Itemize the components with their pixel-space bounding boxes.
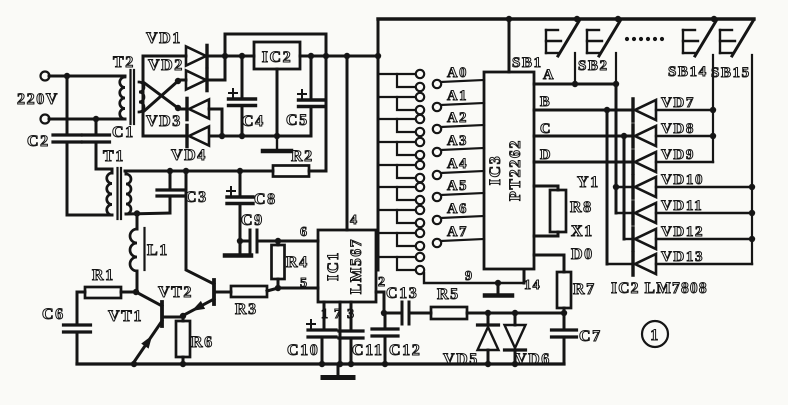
svg-text:R6: R6 xyxy=(191,334,214,351)
svg-text:X1: X1 xyxy=(571,223,594,240)
wire mains bottom xyxy=(49,118,125,121)
diode VD7 xyxy=(631,99,634,121)
svg-text:R2: R2 xyxy=(291,148,314,165)
svg-text:R5: R5 xyxy=(437,286,460,303)
svg-text:LM567: LM567 xyxy=(348,238,365,294)
svg-text:IC2 LM7808: IC2 LM7808 xyxy=(611,280,708,297)
svg-text:C5: C5 xyxy=(286,112,309,129)
svg-text:D: D xyxy=(540,147,552,163)
capacitor C10 xyxy=(308,328,336,331)
diode VD13 xyxy=(631,253,634,275)
svg-text:C2: C2 xyxy=(27,133,50,150)
wire pin14 xyxy=(523,270,526,283)
svg-text:C6: C6 xyxy=(42,306,65,323)
left bus wire xyxy=(377,19,380,270)
ground symbol IC2 xyxy=(276,136,278,150)
svg-text:A6: A6 xyxy=(447,201,468,217)
wire IC1 pin2 xyxy=(376,292,384,313)
svg-text:6: 6 xyxy=(300,225,309,240)
svg-text:T2: T2 xyxy=(113,54,135,71)
svg-text:VT2: VT2 xyxy=(158,284,193,301)
bridge crossover wires xyxy=(143,82,178,108)
svg-text:VD7: VD7 xyxy=(661,95,695,111)
crystal Y1 wire loop xyxy=(534,186,558,190)
capacitor C2 xyxy=(66,76,69,135)
capacitor C8 xyxy=(239,171,242,197)
wire pin1 xyxy=(323,302,326,330)
diode VD9 xyxy=(631,151,634,173)
IC2 ground lead xyxy=(276,69,279,136)
wire T1 secondary top to supply line xyxy=(125,171,128,174)
wire T1 secondary bottom xyxy=(126,213,170,214)
svg-text:C: C xyxy=(540,121,552,137)
svg-text:SB14: SB14 xyxy=(668,64,708,80)
svg-text:SB1: SB1 xyxy=(512,55,543,71)
pin C wire xyxy=(534,135,633,138)
op-amp U1 IC1 LM567 box xyxy=(318,230,376,302)
pin D wire xyxy=(534,161,633,164)
capacitor C12 xyxy=(384,313,387,329)
svg-text:C8: C8 xyxy=(254,191,277,208)
svg-text:A1: A1 xyxy=(447,88,468,104)
wire VD3-VD4 join xyxy=(221,109,224,136)
SB14 lead nodes xyxy=(710,107,716,113)
svg-text:R1: R1 xyxy=(92,267,115,284)
wire D0 to R7 xyxy=(534,255,564,272)
inductor L1 xyxy=(136,213,139,229)
svg-text:Y1: Y1 xyxy=(577,174,600,191)
wire C column feed xyxy=(623,136,626,239)
svg-text:VD4: VD4 xyxy=(171,147,207,164)
svg-text:C3: C3 xyxy=(185,189,208,206)
address row circles and wires xyxy=(433,80,441,88)
svg-text:C7: C7 xyxy=(579,328,602,345)
diode VD11 xyxy=(631,202,634,224)
ground line under IC2 xyxy=(211,135,311,138)
svg-text:14: 14 xyxy=(524,278,541,293)
svg-text:A5: A5 xyxy=(447,178,468,194)
ground symbol main xyxy=(337,364,340,376)
svg-text:C13: C13 xyxy=(386,285,418,302)
wire pin3 xyxy=(350,302,353,331)
svg-text:IC3: IC3 xyxy=(487,155,504,186)
node on mains top xyxy=(64,73,70,79)
bottom ground rail xyxy=(77,362,564,365)
svg-text:A2: A2 xyxy=(447,110,468,126)
svg-text:T1: T1 xyxy=(103,148,125,165)
svg-text:4: 4 xyxy=(350,213,359,228)
svg-text:IC2: IC2 xyxy=(262,49,293,66)
svg-text:VD3: VD3 xyxy=(146,113,182,130)
frame right wire down to R2 xyxy=(325,34,328,171)
svg-text:VT1: VT1 xyxy=(108,308,143,325)
ellipsis dots xyxy=(625,37,629,41)
top supply rail xyxy=(378,17,754,20)
svg-text:SB2: SB2 xyxy=(578,58,609,74)
svg-text:VD13: VD13 xyxy=(661,249,704,265)
pin A wire xyxy=(534,83,616,86)
wire A column feed xyxy=(615,84,618,213)
capacitor C1 xyxy=(95,119,98,135)
svg-text:VD11: VD11 xyxy=(661,198,703,214)
capacitor C4 xyxy=(241,56,244,99)
svg-text:220V: 220V xyxy=(17,91,59,108)
svg-text:PT2262: PT2262 xyxy=(507,139,524,201)
svg-text:R4: R4 xyxy=(286,254,309,271)
ground symbol IC3 xyxy=(497,283,500,294)
switch SB14 xyxy=(682,30,684,53)
address jumper contacts xyxy=(378,73,415,75)
svg-text:C12: C12 xyxy=(389,342,421,359)
node L1 tap xyxy=(134,210,140,216)
wire pin7 xyxy=(339,302,342,364)
diode VD1 xyxy=(143,55,186,58)
capacitor C11 xyxy=(339,329,363,332)
input terminals 220V xyxy=(41,72,50,124)
svg-text:VD9: VD9 xyxy=(661,147,695,163)
wire VD1-VD2 cathode join xyxy=(224,34,227,80)
figure number circle 1 xyxy=(642,321,668,347)
diode VD12 xyxy=(631,228,634,250)
wire C1 to T1 primary xyxy=(96,169,112,173)
resistor R8 xyxy=(550,190,566,232)
wire B column feed xyxy=(606,110,609,264)
svg-text:A7: A7 xyxy=(447,224,468,240)
diode VD4 xyxy=(143,135,187,138)
svg-text:D0: D0 xyxy=(571,246,594,263)
IC3 Vcc wire xyxy=(508,19,511,72)
capacitor C3 xyxy=(169,171,172,190)
svg-text:A: A xyxy=(543,67,555,83)
svg-text:VD10: VD10 xyxy=(661,172,704,188)
bridge left bus xyxy=(142,56,145,136)
wire bottom contact to pin9 xyxy=(424,273,524,283)
wire C2 to T1 primary bottom xyxy=(67,214,112,217)
diode VD3 xyxy=(178,108,187,111)
svg-text:C4: C4 xyxy=(242,113,265,130)
main supply line +V xyxy=(209,55,254,58)
svg-text:IC1: IC1 xyxy=(325,251,342,281)
op-amp U IC2 regulator box xyxy=(254,42,300,69)
bypass frame top wire xyxy=(225,33,326,36)
svg-text:R8: R8 xyxy=(570,199,593,216)
SB15 lead nodes xyxy=(749,184,755,190)
wire IC1 pin4 to +V xyxy=(346,56,349,230)
svg-text:C10: C10 xyxy=(287,342,319,359)
svg-text:VD2: VD2 xyxy=(148,57,184,74)
svg-text:B: B xyxy=(540,94,551,110)
pin B wire xyxy=(534,109,633,112)
svg-text:C1: C1 xyxy=(112,124,135,141)
svg-text:A4: A4 xyxy=(447,156,468,172)
svg-text:1: 1 xyxy=(650,327,660,344)
svg-text:VD1: VD1 xyxy=(146,30,182,47)
wire IC1 pin5 xyxy=(267,288,318,291)
diode VD2 xyxy=(178,79,186,82)
svg-text:VD8: VD8 xyxy=(661,121,695,137)
diode VD8 xyxy=(631,125,634,147)
capacitor C5 xyxy=(310,56,313,100)
node on mains bottom xyxy=(93,116,99,122)
ground symbol C9 node xyxy=(239,241,242,254)
wire 12V line xyxy=(125,170,273,173)
switch SB15 xyxy=(719,30,721,53)
switch SB2 xyxy=(586,30,588,53)
svg-text:C9: C9 xyxy=(241,212,264,229)
svg-text:A3: A3 xyxy=(447,133,468,149)
svg-text:A0: A0 xyxy=(447,65,468,81)
svg-text:L1: L1 xyxy=(147,242,169,259)
svg-text:5: 5 xyxy=(300,276,309,291)
diode VD10 xyxy=(631,176,634,198)
switch SB1 xyxy=(545,30,547,53)
op-amp U IC3 PT2262 box xyxy=(484,72,534,269)
svg-text:R7: R7 xyxy=(573,281,596,298)
svg-text:SB15: SB15 xyxy=(711,65,751,81)
wire mains top xyxy=(49,75,125,78)
svg-text:9: 9 xyxy=(465,269,474,284)
matrix left stubs xyxy=(616,186,633,188)
svg-text:VD12: VD12 xyxy=(661,224,704,240)
svg-text:R3: R3 xyxy=(235,301,258,318)
wire IC1 pin6 xyxy=(278,240,318,243)
svg-text:C11: C11 xyxy=(352,342,383,359)
